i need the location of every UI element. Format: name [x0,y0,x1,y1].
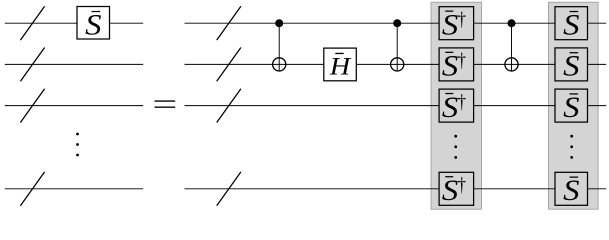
CNOT 2 vertical link [396,23,398,71]
CNOT 3 vertical link [511,23,513,71]
wire R3 (right circuit, qubit 3) [185,105,607,107]
gate box S-bar-dagger (qubit n) [439,172,474,206]
label H-bar [329,52,352,81]
wire L1 (left circuit, qubit 1) [5,22,143,24]
bus slash on wire L5 [20,172,44,206]
CNOT 1 target oplus (qubit 2) [273,58,286,71]
bus slash on wire R5 [217,172,241,206]
CNOT 1 control dot (qubit 1) [275,19,283,27]
gate box H-bar [324,48,357,81]
bus slash on wire R3 [217,89,241,123]
vdots (left circuit, qubit 4 ellipsis) [76,133,79,136]
bus slash on wire L1 [20,6,44,40]
CNOT 2 control dot (qubit 1) [393,19,401,27]
gate box S-bar (column 2, qubit 2) [555,48,588,82]
CNOT 1 vertical link [278,23,280,71]
gate box S-bar (left circuit) [77,7,110,40]
gate-group shading column 1 (S-dagger column) [431,2,482,209]
CNOT 3 target oplus (qubit 2) [505,58,518,71]
label S-bar (left gate) [85,8,102,41]
wire R1 (right circuit, qubit 1) [185,22,607,24]
wire L2 (left circuit, qubit 2) [5,63,143,65]
equals sign [155,100,176,101]
vdots in column 2 (qubit 4 ellipsis) [570,135,573,138]
bus slash on wire L2 [20,48,44,82]
gate-group shading column 2 (S column) [548,2,598,209]
bus slash on wire R2 [217,48,241,82]
vdots in column 1 (qubit 4 ellipsis) [454,135,457,138]
gate box S-bar (column 2, qubit 3) [555,89,588,123]
gate box S-bar (column 2, qubit n) [555,172,588,206]
wire R5 (right circuit, qubit n) [185,188,607,190]
CNOT 3 control dot (qubit 1) [508,19,516,27]
wire L5 (left circuit, qubit n) [5,188,143,190]
bus slash on wire L3 [20,89,44,123]
wire R2 (right circuit, qubit 2) [185,63,607,65]
gate box S-bar-dagger (qubit 2) [439,48,474,82]
gate box S-bar-dagger (qubit 1) [439,7,474,41]
wire L3 (left circuit, qubit 3) [5,105,143,107]
bus slash on wire R1 [217,6,241,40]
gate box S-bar-dagger (qubit 3) [439,89,474,123]
CNOT 2 target oplus (qubit 2) [391,58,404,71]
gate box S-bar (column 2, qubit 1) [555,7,588,41]
